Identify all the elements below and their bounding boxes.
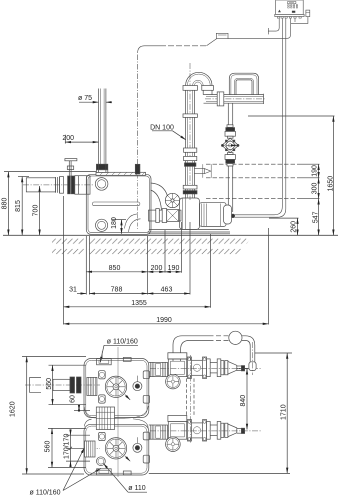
svg-text:1620: 1620 xyxy=(10,401,17,417)
svg-text:ø 110/160: ø 110/160 xyxy=(107,339,138,346)
svg-text:200: 200 xyxy=(151,265,163,272)
svg-text:190: 190 xyxy=(168,265,180,272)
svg-text:560: 560 xyxy=(46,378,53,390)
svg-text:31: 31 xyxy=(69,286,77,293)
svg-text:180: 180 xyxy=(111,217,118,229)
svg-text:DN 100: DN 100 xyxy=(150,124,174,131)
svg-text:840: 840 xyxy=(240,395,247,407)
svg-text:190: 190 xyxy=(311,165,318,177)
svg-text:300: 300 xyxy=(311,182,318,194)
svg-text:ø 75: ø 75 xyxy=(78,95,92,102)
svg-text:560: 560 xyxy=(45,441,52,453)
svg-text:700: 700 xyxy=(33,205,40,217)
svg-text:ø 110: ø 110 xyxy=(128,485,145,492)
svg-text:1990: 1990 xyxy=(156,317,172,324)
svg-text:170/170: 170/170 xyxy=(63,434,70,459)
svg-text:547: 547 xyxy=(312,211,319,223)
svg-text:60: 60 xyxy=(70,395,77,403)
svg-text:850: 850 xyxy=(109,265,121,272)
svg-text:463: 463 xyxy=(161,286,173,293)
svg-text:788: 788 xyxy=(111,286,123,293)
svg-text:1710: 1710 xyxy=(280,404,287,420)
svg-text:260: 260 xyxy=(290,221,297,233)
svg-text:815: 815 xyxy=(15,200,22,212)
svg-text:880: 880 xyxy=(2,198,9,210)
svg-text:ø 110/160: ø 110/160 xyxy=(29,489,60,496)
svg-text:1355: 1355 xyxy=(131,300,147,307)
svg-text:200: 200 xyxy=(62,135,74,142)
svg-text:1650: 1650 xyxy=(327,176,334,192)
